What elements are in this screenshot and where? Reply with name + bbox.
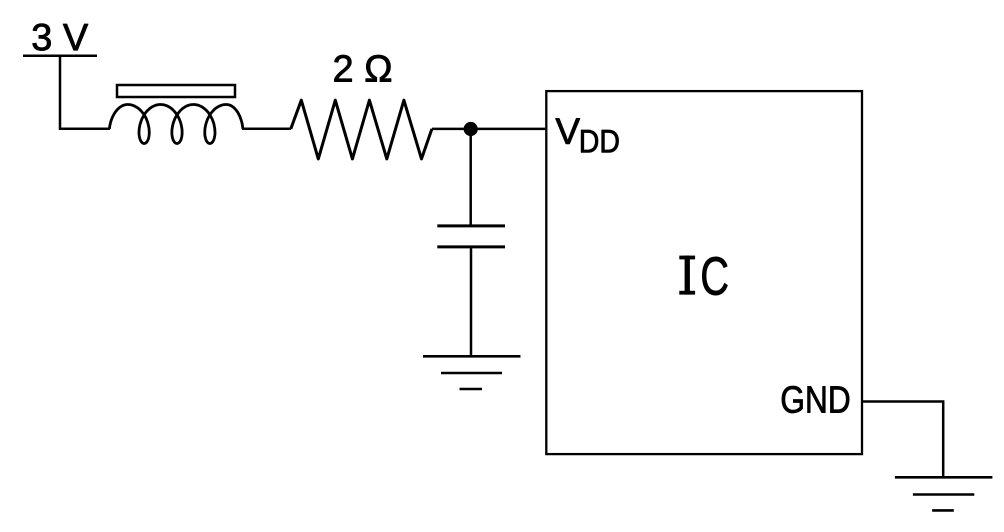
wire (470, 247, 473, 356)
wire (469, 129, 472, 226)
ground (IC) (895, 477, 993, 510)
wire (432, 128, 545, 131)
IC U1 box (546, 91, 862, 454)
wire (60, 56, 110, 129)
wire (242, 128, 291, 131)
pin label VDD (556, 118, 580, 143)
IC label (679, 256, 695, 295)
capacitor C1 (437, 226, 505, 247)
inductor L1 (109, 105, 243, 144)
inductor core bar (117, 85, 235, 97)
supply rail 3V (23, 54, 97, 57)
wire (862, 402, 943, 478)
ground (capacitor) (423, 356, 521, 389)
supply label 3 V (33, 24, 88, 51)
pin label GND (782, 386, 849, 413)
label 2 ohm (334, 55, 391, 82)
resistor 2 ohm (291, 100, 432, 159)
node junction dot (464, 122, 478, 136)
